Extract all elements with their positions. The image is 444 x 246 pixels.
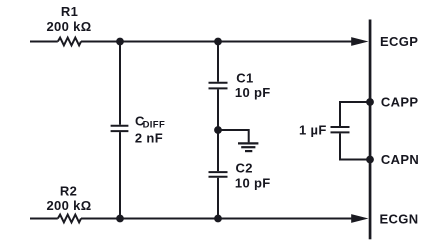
- wire: CAPN horizontal: [340, 159, 369, 161]
- svg-text:200 kΩ: 200 kΩ: [46, 19, 91, 34]
- wire: CDIFF branch upper: [119, 42, 121, 125]
- svg-text:CAPN: CAPN: [381, 152, 419, 167]
- arrowhead into ECGP pin: [351, 37, 368, 46]
- capacitor CDIFF: [111, 126, 129, 131]
- svg-text:C1: C1: [236, 71, 253, 86]
- wire: bottom ECGN net, left segment: [30, 218, 58, 220]
- svg-text:DIFF: DIFF: [143, 120, 166, 131]
- resistor R1: [58, 38, 81, 46]
- ground: [238, 143, 258, 151]
- wire: bottom ECGN net, right segment: [81, 218, 356, 220]
- node: C1-C2 midpoint junction: [214, 126, 222, 134]
- svg-text:ECGP: ECGP: [380, 34, 418, 49]
- node: R1 / CDIFF junction: [116, 38, 124, 46]
- label CDIFF: [135, 114, 165, 131]
- wire: 1µF branch upper: [339, 101, 341, 126]
- wire: C1 branch upper: [217, 42, 219, 82]
- wire: C2 branch lower: [217, 178, 219, 219]
- wire: stub from mid node to ground: [218, 130, 249, 142]
- svg-text:200 kΩ: 200 kΩ: [46, 198, 91, 213]
- node: bottom / C2 junction: [214, 215, 222, 223]
- IC edge bar: [369, 20, 372, 240]
- wire: CAPP horizontal: [340, 101, 369, 103]
- resistor R2: [58, 215, 81, 223]
- svg-text:10 pF: 10 pF: [235, 175, 271, 190]
- svg-text:1 µF: 1 µF: [299, 122, 327, 137]
- svg-text:10 pF: 10 pF: [235, 85, 271, 100]
- capacitor C2: [209, 172, 228, 177]
- wire: CDIFF branch lower: [119, 132, 121, 218]
- capacitor 1µF: [331, 127, 350, 132]
- arrowhead into ECGN pin: [351, 214, 368, 223]
- svg-text:R2: R2: [60, 184, 77, 199]
- node: CAPN pin junction: [366, 156, 374, 164]
- node: top / C1 junction: [214, 38, 222, 46]
- capacitor C1: [209, 83, 228, 89]
- wire: between C1 and C2: [217, 89, 219, 171]
- svg-text:ECGN: ECGN: [380, 211, 419, 226]
- svg-text:CAPP: CAPP: [381, 95, 419, 110]
- wire: top ECGP net, right segment: [81, 41, 356, 43]
- node: CAPP pin junction: [366, 98, 374, 106]
- wire: 1µF branch lower: [339, 133, 341, 160]
- svg-text:C2: C2: [236, 161, 253, 176]
- wire: top ECGP net, left segment: [30, 41, 58, 43]
- node: R2 / CDIFF junction: [116, 215, 124, 223]
- svg-text:2 nF: 2 nF: [135, 131, 163, 146]
- svg-text:R1: R1: [61, 4, 78, 19]
